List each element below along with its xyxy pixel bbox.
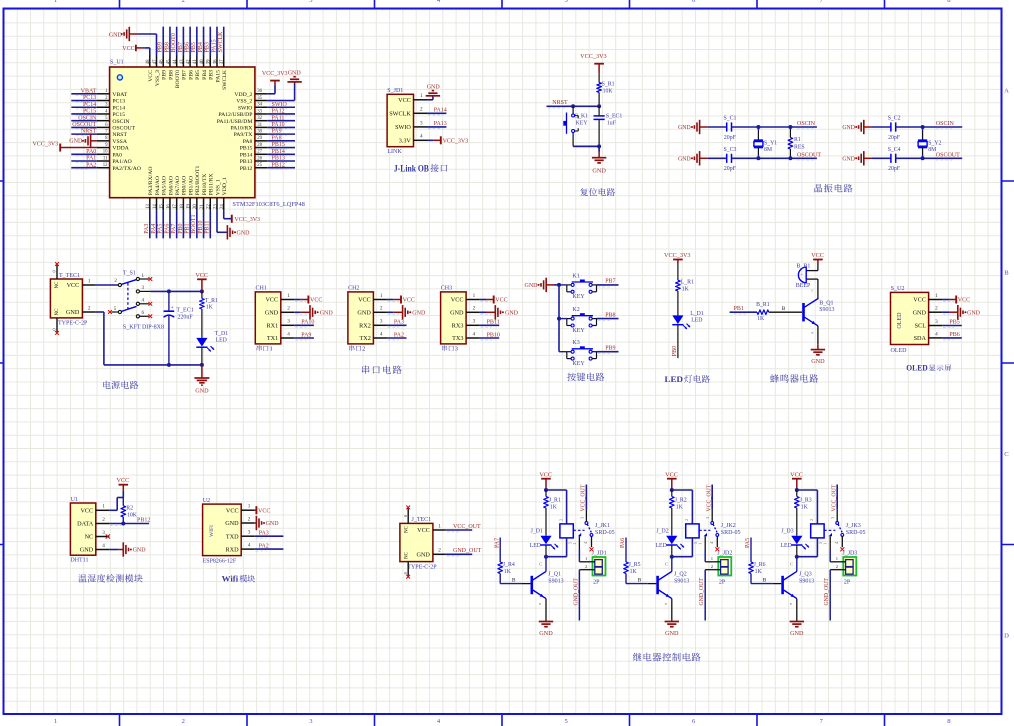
svg-text:U2: U2 <box>203 498 210 504</box>
svg-text:PA7: PA7 <box>494 538 500 548</box>
svg-text:VCC: VCC <box>80 508 93 515</box>
transistor J_Q1 S9013 <box>531 557 564 619</box>
svg-text:1: 1 <box>823 543 828 545</box>
junction <box>557 283 561 287</box>
resistor J_R2 1K <box>670 490 687 536</box>
svg-text:S_U1: S_U1 <box>110 60 124 66</box>
ground CH1 <box>294 305 333 319</box>
svg-text:47: 47 <box>153 59 158 64</box>
wire relay 3 contact to 2P <box>829 550 831 562</box>
U1 pin 24 VDD_1 <box>220 177 228 210</box>
svg-text:4: 4 <box>935 331 938 337</box>
wire PA3 ESP8266 <box>255 530 284 538</box>
svg-text:2: 2 <box>473 306 476 312</box>
title serial circuit <box>362 365 402 374</box>
wire TEC1 VCC to switch <box>96 284 119 286</box>
junction <box>921 125 925 129</box>
relay J_JK1 SRD-05 coil <box>546 490 577 557</box>
diode L_D1 LED <box>672 311 704 329</box>
svg-text:19: 19 <box>187 204 192 209</box>
U1 pin 32 PA11/USB/DM <box>217 115 295 125</box>
U1 pin 29 PA8 <box>243 135 295 145</box>
svg-text:NC: NC <box>55 308 60 316</box>
svg-text:1: 1 <box>287 293 290 299</box>
svg-text:SDA: SDA <box>914 335 927 342</box>
svg-text:PC13: PC13 <box>83 95 96 101</box>
svg-text:21: 21 <box>200 204 205 209</box>
svg-text:VCC_OUT: VCC_OUT <box>706 484 712 511</box>
connector JD1 J-Link <box>387 88 427 155</box>
capacitor S_EC1 1uF <box>594 106 623 146</box>
svg-text:NRST: NRST <box>81 129 97 135</box>
relay J_JK1 contact <box>567 485 614 551</box>
svg-text:4: 4 <box>380 331 383 337</box>
U1 pin 27 PB14 <box>240 149 295 159</box>
svg-text:GND: GND <box>133 548 147 554</box>
wire PA3 CH2 <box>387 320 407 328</box>
svg-text:TYPE-C-2P: TYPE-C-2P <box>58 320 88 326</box>
svg-text:PA10: PA10 <box>272 122 285 128</box>
svg-text:3: 3 <box>248 530 251 536</box>
svg-text:PB8: PB8 <box>164 42 170 52</box>
wire GND_OUT relay 3 <box>824 570 830 621</box>
svg-text:VCC: VCC <box>310 298 322 304</box>
U1 pin 46 PB9 <box>158 27 168 80</box>
title LED circuit <box>665 375 710 384</box>
svg-text:PB9: PB9 <box>605 346 615 352</box>
svg-text:PA0: PA0 <box>86 149 96 155</box>
U1 pin 7 NRST <box>71 129 127 139</box>
svg-text:2: 2 <box>420 107 423 113</box>
svg-text:S_C3: S_C3 <box>724 147 737 153</box>
svg-text:GND: GND <box>266 521 280 527</box>
diode J_D1 LED <box>530 529 559 557</box>
svg-text:VBAT: VBAT <box>81 88 97 94</box>
U1 pin 6 OSCOUT <box>71 122 135 132</box>
junction <box>121 522 125 526</box>
U1 pin 42 PB6 <box>185 27 195 80</box>
svg-text:PA15: PA15 <box>211 39 217 52</box>
svg-text:VBAT: VBAT <box>112 92 127 98</box>
svg-text:VCC_3V3: VCC_3V3 <box>580 53 606 60</box>
resistor L_R1 1K <box>676 264 694 316</box>
ground OLED <box>942 305 981 319</box>
junction <box>597 144 601 148</box>
junction <box>788 156 792 160</box>
U1 pin 36 VDD_2 <box>234 89 267 98</box>
svg-text:C: C <box>539 561 542 566</box>
svg-text:VSS_3: VSS_3 <box>155 70 161 86</box>
svg-text:LED: LED <box>216 337 227 343</box>
svg-text:PA1: PA1 <box>86 156 96 162</box>
capacitor S_C1 20pF <box>708 116 817 141</box>
svg-text:VCC: VCC <box>811 252 824 259</box>
U1 pin 45 PB8 <box>164 27 174 80</box>
svg-text:PB5: PB5 <box>191 42 197 52</box>
svg-text:S_JD1: S_JD1 <box>387 88 403 94</box>
svg-text:15: 15 <box>160 204 165 209</box>
power flag VCC pin 48 <box>122 45 150 56</box>
U1 pin 38 PA15 <box>211 27 221 83</box>
U1 pin 44 BOOT0 <box>171 27 181 89</box>
svg-text:VCC: VCC <box>665 472 678 479</box>
svg-text:1uF: 1uF <box>607 121 617 127</box>
title temperature humidity module <box>78 574 142 582</box>
svg-text:GND: GND <box>69 139 83 145</box>
svg-text:2: 2 <box>88 305 91 311</box>
svg-text:27: 27 <box>257 150 262 155</box>
junction <box>167 363 171 367</box>
svg-text:S9013: S9013 <box>799 578 814 584</box>
svg-text:20pF: 20pF <box>888 166 901 172</box>
svg-text:J_R2: J_R2 <box>675 498 687 504</box>
svg-text:PA9: PA9 <box>272 129 282 135</box>
svg-text:GND: GND <box>412 311 426 317</box>
svg-text:TX3: TX3 <box>452 335 463 342</box>
svg-text:PA6: PA6 <box>620 538 626 548</box>
svg-text:VCC_3V3: VCC_3V3 <box>33 141 59 147</box>
svg-text:PC15: PC15 <box>83 109 96 115</box>
power flag VCC relay 1 <box>539 472 552 490</box>
svg-text:GND: GND <box>80 547 94 554</box>
svg-text:VCC: VCC <box>258 508 270 514</box>
svg-text:GND: GND <box>450 310 464 317</box>
svg-text:J_R4: J_R4 <box>503 562 515 568</box>
diode J_D2 LED <box>656 529 685 557</box>
svg-text:GND: GND <box>678 125 691 131</box>
svg-text:25: 25 <box>257 163 262 168</box>
svg-text:29: 29 <box>257 136 262 141</box>
transistor J_Q2 S9013 <box>656 557 689 619</box>
svg-text:32: 32 <box>257 116 262 121</box>
relay J_JK3 SRD-05 coil <box>797 490 828 557</box>
junction <box>597 104 601 108</box>
svg-text:VCC: VCC <box>148 70 154 82</box>
svg-text:1: 1 <box>248 504 251 510</box>
svg-text:48: 48 <box>146 59 151 64</box>
wire PA10 CH1 <box>294 320 314 328</box>
svg-text:VCC: VCC <box>226 507 239 514</box>
ground buzzer <box>811 344 825 365</box>
svg-text:S_EC1: S_EC1 <box>606 114 623 120</box>
svg-text:OSCIN: OSCIN <box>797 121 816 127</box>
svg-text:PB10: PB10 <box>198 220 204 233</box>
svg-text:VCC: VCC <box>122 46 134 52</box>
svg-text:1: 1 <box>270 346 273 353</box>
net label OSCOUT <box>936 153 960 161</box>
svg-text:36: 36 <box>257 89 262 94</box>
junction <box>544 488 548 492</box>
U1 pin 12 PA2/TX/AO <box>71 162 141 172</box>
svg-text:STM32F103C8T6_LQFP48: STM32F103C8T6_LQFP48 <box>232 201 304 208</box>
svg-text:NC: NC <box>85 534 94 541</box>
svg-text:VCC: VCC <box>913 297 926 304</box>
svg-text:GND_OUT: GND_OUT <box>699 578 705 606</box>
power VCC_3V3 pin 36 VDD_2 <box>262 71 288 94</box>
svg-text:GND: GND <box>109 32 123 38</box>
svg-text:PB2/BOOT1: PB2/BOOT1 <box>195 166 201 196</box>
svg-text:J_R5: J_R5 <box>629 562 641 568</box>
svg-text:GND: GND <box>525 283 539 289</box>
svg-text:3: 3 <box>935 319 938 325</box>
svg-text:PB8: PB8 <box>605 312 615 318</box>
no connect marks T_TEC1 <box>55 262 59 335</box>
svg-text:20: 20 <box>193 204 198 209</box>
no connect relay 2 NO pin <box>715 547 719 551</box>
svg-text:2: 2 <box>809 519 814 521</box>
svg-text:20pF: 20pF <box>724 166 737 172</box>
svg-text:VDD_2: VDD_2 <box>234 92 252 98</box>
no connect relay 3 NO pin <box>840 547 844 551</box>
svg-text:PB11/RX: PB11/RX <box>209 173 215 195</box>
svg-text:1K: 1K <box>206 305 214 311</box>
svg-text:J_JD1: J_JD1 <box>592 551 607 557</box>
svg-text:26: 26 <box>257 156 262 161</box>
svg-text:T_TEC1: T_TEC1 <box>59 273 80 279</box>
svg-text:PA13: PA13 <box>434 121 447 127</box>
crystal S_Y1 8M <box>754 127 778 158</box>
connector CH1 serial <box>255 286 294 353</box>
svg-text:14: 14 <box>153 204 158 209</box>
svg-text:2: 2 <box>102 517 105 523</box>
wire relay 2 contact to 2P <box>704 550 706 562</box>
push button K1 KEY <box>559 273 597 300</box>
U1 pin 4 PC15 <box>71 109 125 119</box>
svg-text:OLED: OLED <box>891 348 908 354</box>
svg-text:1: 1 <box>698 543 703 545</box>
svg-text:GND_OUT: GND_OUT <box>573 578 579 606</box>
svg-text:3: 3 <box>287 319 290 325</box>
svg-text:VSS_2: VSS_2 <box>236 99 252 105</box>
svg-text:PB0: PB0 <box>672 346 678 356</box>
svg-text:GND: GND <box>790 630 804 637</box>
svg-text:e: e <box>665 601 667 606</box>
connector CH2 serial <box>348 286 387 353</box>
svg-text:S_C1: S_C1 <box>724 116 737 122</box>
svg-text:+: + <box>800 271 803 276</box>
svg-text:GND: GND <box>225 520 239 527</box>
svg-text:J_JK2: J_JK2 <box>721 523 736 529</box>
zone letters right <box>1004 88 1009 640</box>
svg-text:SWIO: SWIO <box>272 102 288 108</box>
svg-text:DHT11: DHT11 <box>70 558 88 564</box>
svg-text:PA4/AO: PA4/AO <box>155 176 161 195</box>
U1 pin 28 PB15 <box>240 142 295 152</box>
svg-text:LED: LED <box>781 543 792 549</box>
U1 pin 11 PA1/AO <box>71 156 131 166</box>
svg-text:PB0/AO: PB0/AO <box>182 176 188 196</box>
power flag VCC relay 2 <box>665 472 678 490</box>
svg-text:OLED: OLED <box>897 312 903 329</box>
svg-text:S_U2: S_U2 <box>891 286 905 292</box>
svg-text:1K: 1K <box>801 504 809 510</box>
svg-text:PB13: PB13 <box>272 156 285 162</box>
svg-text:OSCOUT: OSCOUT <box>72 122 96 128</box>
svg-text:PB5: PB5 <box>949 320 959 326</box>
svg-text:PC13: PC13 <box>112 99 125 105</box>
svg-text:PB15: PB15 <box>240 146 253 152</box>
net label OSCIN <box>936 121 955 129</box>
title J-Link OB interface <box>394 163 448 173</box>
ground CH2 <box>387 305 426 319</box>
svg-text:LED: LED <box>691 317 702 323</box>
svg-text:S_C4: S_C4 <box>888 147 901 153</box>
ground pin 35 VSS_2 <box>267 70 302 100</box>
svg-text:NC: NC <box>405 551 410 559</box>
svg-text:GND: GND <box>265 310 279 317</box>
svg-text:K3: K3 <box>572 340 579 346</box>
svg-text:35: 35 <box>257 96 262 101</box>
resistor J_R3 1K <box>795 490 812 536</box>
svg-text:PA2: PA2 <box>394 332 404 338</box>
U1 pin 33 PA12/USB/DP <box>218 109 295 119</box>
wire PB0 LED <box>672 325 678 358</box>
svg-text:J_Q2: J_Q2 <box>674 572 687 578</box>
svg-text:28: 28 <box>257 143 262 148</box>
svg-text:PB11: PB11 <box>205 221 211 234</box>
svg-text:PB12: PB12 <box>272 162 285 168</box>
svg-text:PB1: PB1 <box>185 223 191 233</box>
svg-text:VCC: VCC <box>495 298 507 304</box>
svg-text:RX2: RX2 <box>359 323 371 330</box>
wire PB5 OLED <box>942 320 962 328</box>
svg-text:PB12: PB12 <box>240 166 253 172</box>
svg-text:PA6/AO: PA6/AO <box>168 176 174 195</box>
svg-text:L_R1: L_R1 <box>681 280 694 286</box>
svg-text:30: 30 <box>257 130 262 135</box>
wire PB11 CH3 <box>480 320 500 328</box>
svg-text:NRST: NRST <box>552 100 568 106</box>
wire PA13 JD1 pin3 <box>427 121 447 129</box>
no connect relay 1 NO pin <box>590 547 594 551</box>
resistor S_R1 10K <box>597 74 615 107</box>
svg-text:16: 16 <box>166 204 171 209</box>
svg-text:S_C2: S_C2 <box>888 116 901 122</box>
sensor U1 DHT11 <box>70 497 109 564</box>
power flag VCC CH3 <box>480 296 508 304</box>
svg-text:PB9: PB9 <box>162 70 168 80</box>
svg-text:1: 1 <box>380 293 383 299</box>
svg-text:4: 4 <box>420 134 423 140</box>
svg-text:J_R1: J_R1 <box>549 498 561 504</box>
svg-text:L_D1: L_D1 <box>690 311 704 317</box>
U1 pin 8 VSSA <box>97 136 128 145</box>
wire PA2 ESP8266 <box>255 543 284 551</box>
svg-text:PB8: PB8 <box>168 70 174 80</box>
svg-text:VCC_OUT: VCC_OUT <box>453 524 481 530</box>
svg-text:PA8: PA8 <box>272 135 282 141</box>
svg-text:1: 1 <box>572 543 577 545</box>
power flag VCC CH1 <box>294 296 322 304</box>
U1 pin 47 VSS_3 <box>153 56 161 87</box>
svg-text:1: 1 <box>935 293 938 299</box>
title crystal circuit <box>814 184 852 192</box>
svg-text:SWIO: SWIO <box>395 124 411 131</box>
junction <box>670 555 674 559</box>
svg-text:20pF: 20pF <box>724 135 737 141</box>
svg-text:NRST: NRST <box>112 132 127 138</box>
svg-text:GND: GND <box>357 310 371 317</box>
svg-text:2: 2 <box>362 346 365 353</box>
capacitor S_C3 20pF <box>708 147 817 172</box>
svg-text:PB11: PB11 <box>487 320 500 326</box>
U1 pin 16 PA6/AO <box>164 176 174 238</box>
svg-text:PA15: PA15 <box>215 70 221 83</box>
svg-text:T_D1: T_D1 <box>215 331 229 337</box>
svg-text:OLED: OLED <box>906 364 927 373</box>
svg-text:WIFI: WIFI <box>209 525 215 537</box>
ground relay 2 <box>665 619 679 637</box>
svg-text:TX2: TX2 <box>359 335 370 342</box>
svg-text:GND: GND <box>811 358 825 365</box>
svg-text:e: e <box>811 330 813 335</box>
svg-text:3: 3 <box>420 120 423 126</box>
svg-text:PB0: PB0 <box>178 223 184 233</box>
relay J_JK3 contact <box>818 485 865 551</box>
svg-text:PB4: PB4 <box>198 42 204 52</box>
svg-text:23: 23 <box>213 204 218 209</box>
svg-text:PA14: PA14 <box>434 107 447 113</box>
svg-text:J_D1: J_D1 <box>531 529 543 535</box>
svg-text:2: 2 <box>380 306 383 312</box>
svg-text:PA3/RX/AO: PA3/RX/AO <box>148 167 154 196</box>
svg-text:VCC_OUT: VCC_OUT <box>831 484 837 511</box>
svg-text:8M: 8M <box>764 147 772 153</box>
title reset circuit <box>580 188 615 196</box>
svg-text:VSS_1: VSS_1 <box>215 179 221 195</box>
wire PB7 K1 <box>597 279 619 287</box>
svg-text:1K: 1K <box>630 569 638 575</box>
svg-text:GND: GND <box>505 311 519 317</box>
title buzzer circuit <box>770 374 818 383</box>
svg-text:2: 2 <box>558 519 563 521</box>
svg-text:VCC: VCC <box>790 472 803 479</box>
svg-text:4: 4 <box>287 331 290 337</box>
U1 pin 10 PA0 <box>71 149 122 159</box>
svg-text:24: 24 <box>220 204 225 209</box>
svg-text:J_JK1: J_JK1 <box>595 523 610 529</box>
U1 pin 22 PB11/RX <box>205 173 215 238</box>
connector J_JD1 2P <box>579 551 606 586</box>
svg-text:40: 40 <box>200 59 205 64</box>
svg-text:SRD-05: SRD-05 <box>595 530 615 536</box>
svg-text:1K: 1K <box>676 504 684 510</box>
svg-text:B_B1: B_B1 <box>796 264 810 270</box>
svg-text:PA12/USB/DP: PA12/USB/DP <box>218 112 252 118</box>
power VCC_3V3 VDDA pin 9 <box>33 141 97 151</box>
svg-text:PB10/TX: PB10/TX <box>202 174 208 196</box>
title wifi module <box>222 574 255 584</box>
svg-text:PA3: PA3 <box>259 530 269 536</box>
svg-text:PB1: PB1 <box>734 306 744 312</box>
resistor B_R1 1K <box>730 302 803 322</box>
svg-text:KEY: KEY <box>576 121 589 127</box>
ground flag keys <box>525 278 560 292</box>
U1 pin 26 PB13 <box>240 156 295 166</box>
svg-text:1K: 1K <box>757 316 765 322</box>
svg-text:PA5: PA5 <box>745 538 751 548</box>
svg-text:1K: 1K <box>550 504 558 510</box>
svg-text:J_D3: J_D3 <box>781 529 793 535</box>
svg-text:44: 44 <box>173 59 178 64</box>
svg-text:SRD-05: SRD-05 <box>721 530 741 536</box>
svg-text:NC: NC <box>55 281 60 289</box>
svg-text:J_Q1: J_Q1 <box>548 572 561 578</box>
svg-text:TYPE-C-2P: TYPE-C-2P <box>407 564 437 570</box>
junction <box>544 555 548 559</box>
svg-text:RX1: RX1 <box>266 323 278 330</box>
svg-text:SWCLK: SWCLK <box>218 31 224 53</box>
